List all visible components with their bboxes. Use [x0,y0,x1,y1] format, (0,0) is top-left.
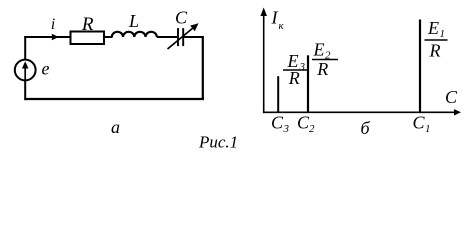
svg-text:C: C [175,7,188,27]
svg-text:R: R [429,40,441,60]
wire inductor-to-capacitor [157,36,177,38]
svg-text:Рис.1: Рис.1 [198,133,238,152]
svg-text:I: I [271,8,279,28]
svg-text:i: i [51,16,55,33]
svg-text:C: C [271,113,284,133]
svg-text:R: R [316,59,328,79]
wire top-left segment [24,36,70,38]
spike at C3 [277,76,279,112]
svg-text:E: E [313,40,325,60]
svg-text:к: к [279,20,285,32]
svg-text:C: C [412,113,425,133]
wire left upper [24,36,26,59]
svg-text:1: 1 [440,28,446,40]
inductor L1 [112,32,157,37]
svg-text:C: C [445,87,458,107]
svg-text:L: L [128,11,139,31]
svg-text:1: 1 [425,123,431,135]
svg-text:3: 3 [283,123,290,135]
svg-text:2: 2 [309,123,315,135]
svg-text:R: R [288,68,300,88]
spike at C1 [419,20,421,113]
chart horizontal axis [263,111,456,113]
current arrow i [52,34,59,40]
wire bottom [24,98,204,100]
fraction E2/R bar [312,59,338,61]
capacitor C1 plate left [177,28,179,46]
spike at C2 [307,55,309,112]
resistor R1 body [71,32,105,45]
wire resistor-to-inductor [104,36,113,38]
svg-text:E: E [427,18,439,38]
source E1 circle [15,60,36,81]
capacitor C1 plate right [182,28,184,46]
source E1 arrow [24,67,26,80]
fraction E3/R bar [283,69,307,71]
variable capacitor arrow [168,28,194,50]
fraction E1/R bar [425,39,448,41]
svg-text:e: e [42,58,50,78]
chart vertical axis [263,12,265,113]
svg-text:R: R [81,14,94,35]
wire left lower [24,81,26,101]
svg-text:а: а [111,117,120,137]
wire right vertical [202,36,204,100]
svg-text:б: б [360,118,370,138]
wire capacitor-to-corner [184,36,204,38]
